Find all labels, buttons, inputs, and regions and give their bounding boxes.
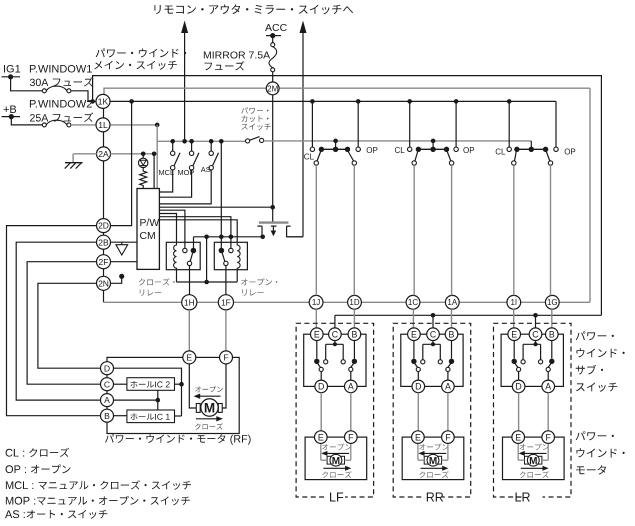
switch LF rocker OP riser <box>357 101 359 147</box>
pin 2B <box>97 235 111 249</box>
motor RR M <box>424 454 441 466</box>
motor RF box <box>107 357 239 433</box>
svg-text:A: A <box>348 382 354 392</box>
legend OP <box>6 464 71 473</box>
wire pin D to hall ICs <box>114 368 182 416</box>
pin 1J <box>309 295 323 309</box>
switch LR rocker rocker bar <box>530 141 532 149</box>
wire LF A to motor F <box>350 393 352 431</box>
arrow to remote mirror switch (left) <box>181 21 188 34</box>
motor LF pin E <box>315 431 328 444</box>
svg-text:2A: 2A <box>98 149 109 159</box>
switch AS <box>209 151 213 155</box>
pin 2F <box>97 255 111 269</box>
wire IG1 to fuse F1 <box>11 77 42 91</box>
fuse F2 P.WINDOW2 25A <box>42 123 46 127</box>
net label: to remote outer mirror switch <box>155 4 354 14</box>
wire LR D to motor E <box>518 393 520 431</box>
wire RR D to motor E <box>417 393 419 431</box>
motor RF close arrow <box>196 418 221 420</box>
svg-text:E: E <box>515 432 521 442</box>
switch MCL <box>171 151 175 155</box>
svg-text:F: F <box>445 432 451 442</box>
sub-switch RR pin C <box>427 328 440 341</box>
svg-text:D: D <box>104 363 110 373</box>
legend AS <box>5 510 107 519</box>
open relay coil <box>237 242 240 269</box>
wire pin B to hall IC1 <box>114 415 127 417</box>
wire 1L to CM and switch bus <box>110 124 157 126</box>
pin 1F <box>218 295 233 310</box>
svg-text:1J: 1J <box>312 298 320 307</box>
svg-text:2B: 2B <box>98 237 109 247</box>
open relay box <box>214 242 247 269</box>
svg-text:MIRROR 7.5A: MIRROR 7.5A <box>203 50 270 62</box>
svg-text:OP: OP <box>564 148 576 157</box>
svg-text:F: F <box>223 352 228 362</box>
switch RR rocker CL riser <box>409 101 411 147</box>
switch RR rocker blades <box>415 152 418 162</box>
wire top loop feed to sub-switch commons <box>93 76 602 316</box>
sub-switch RR pin D <box>412 380 425 393</box>
wire CM to close relay contact <box>160 210 185 248</box>
wire +B to fuse F2 <box>11 117 42 125</box>
svg-text:LR: LR <box>515 491 531 505</box>
caption power window motor RF <box>105 434 251 445</box>
motor RR pin F <box>442 431 455 444</box>
svg-text:B: B <box>449 329 455 339</box>
switch LF rocker rocker bar <box>335 141 337 149</box>
legend CL <box>6 448 69 457</box>
svg-text:C: C <box>532 329 539 339</box>
switch RR rocker rocker bar <box>432 141 434 149</box>
wire RR feeds <box>413 309 451 328</box>
wire LF D to motor E <box>320 393 322 431</box>
legend MCL <box>6 480 191 490</box>
wire pin F to motor <box>222 364 226 408</box>
label close relay <box>139 278 175 285</box>
motor LF pin F <box>345 431 358 444</box>
svg-text:B: B <box>351 329 357 339</box>
svg-text:CL: CL <box>495 148 506 157</box>
wire LR rocker CL dropper <box>513 165 515 295</box>
pin 1G <box>545 295 559 309</box>
svg-text:P.WINDOW2: P.WINDOW2 <box>29 99 92 111</box>
junctions on source line <box>204 235 209 240</box>
power cut switch <box>246 139 250 143</box>
hall IC2 <box>127 378 175 391</box>
sub-switch LF internals <box>314 341 357 381</box>
svg-text:M: M <box>529 456 537 467</box>
switch LR rocker CL riser <box>508 101 510 147</box>
svg-text:2M: 2M <box>267 84 278 93</box>
offpage arrow below 2B <box>121 242 123 245</box>
sub-switch LF pin E <box>311 328 324 341</box>
sub-switch RR internals <box>411 341 454 381</box>
switch RR rocker contacts <box>408 147 412 151</box>
svg-text:P.WINDOW1: P.WINDOW1 <box>29 64 92 76</box>
motor M RF <box>196 404 200 413</box>
wire 2B to motor pin A <box>16 242 100 400</box>
terminal ACC <box>266 35 281 37</box>
svg-text:+B: +B <box>3 104 17 116</box>
sub-switch LF pin A <box>345 380 358 393</box>
wire close relay to 1H <box>189 266 191 295</box>
svg-text:IG1: IG1 <box>3 64 21 76</box>
wire hall IC2 out <box>175 383 182 385</box>
svg-text:D: D <box>415 382 421 392</box>
wire LF rocker OP dropper <box>353 165 355 295</box>
terminal IG1 <box>2 76 21 78</box>
svg-text:1I: 1I <box>510 298 517 307</box>
wire fuse F2 to 1L <box>71 124 96 126</box>
svg-text:C: C <box>430 329 437 339</box>
svg-text:1A: 1A <box>447 298 457 307</box>
wire LF feeds <box>316 309 354 328</box>
svg-text:ACC: ACC <box>265 22 288 34</box>
svg-text:M: M <box>429 456 437 467</box>
svg-text:CM: CM <box>140 231 156 242</box>
svg-text:E: E <box>186 352 192 362</box>
wire 1H to pin E <box>188 310 190 351</box>
sub-switch LF box <box>304 334 366 386</box>
svg-text:CL: CL <box>395 146 406 155</box>
sub-switch LR internals <box>511 341 554 381</box>
wire relay coil commons <box>176 270 178 282</box>
svg-text:2F: 2F <box>99 257 109 267</box>
motor LF wires <box>321 443 351 460</box>
switch MOP stub <box>191 141 193 151</box>
ground <box>72 154 74 163</box>
label power window motor <box>576 431 614 440</box>
svg-text:D: D <box>515 382 521 392</box>
junction node K <box>90 99 95 104</box>
label: power window main switch <box>96 48 187 57</box>
switch AS stub <box>210 141 212 151</box>
sub-switch RR pin E <box>408 328 421 341</box>
svg-text:E: E <box>411 329 417 339</box>
wire 2B to CM <box>110 241 137 243</box>
pin 2A <box>97 147 111 161</box>
wire RR rocker OP dropper <box>451 165 453 295</box>
svg-text:F: F <box>546 432 552 442</box>
label: power cut switch <box>241 107 268 114</box>
wire MOP to CM <box>160 170 192 197</box>
pin 1C <box>406 295 420 309</box>
pin 2D <box>97 219 111 233</box>
sub-switch LR pin A <box>542 380 555 393</box>
motor RF pin D <box>101 362 114 375</box>
svg-text:C: C <box>332 329 339 339</box>
motor RF open arrow <box>195 386 223 392</box>
wire LR rocker OP dropper <box>550 165 552 295</box>
wire RR A to motor F <box>447 393 449 431</box>
svg-text:2N: 2N <box>98 278 109 288</box>
sub-switch LR pin E <box>508 328 521 341</box>
wire connector column <box>103 108 105 147</box>
svg-text:P/W: P/W <box>140 218 160 229</box>
LED indicator <box>142 154 144 158</box>
wire 2A to ground <box>73 153 97 155</box>
motor RF pin E <box>183 351 196 364</box>
wire 2F to CM <box>110 261 137 263</box>
dashed boundary RR <box>393 323 471 497</box>
hall IC1 <box>127 410 175 423</box>
svg-text:E: E <box>318 432 324 442</box>
motor RF pin F <box>220 351 233 364</box>
bus switch feed right section <box>264 140 532 142</box>
sub-switch RR pin B <box>445 328 458 341</box>
wire connector row line <box>104 301 591 303</box>
transistor Q1 body <box>257 225 262 227</box>
svg-text:A: A <box>445 382 451 392</box>
pin 1K <box>96 94 110 108</box>
bus 1K line <box>110 100 556 102</box>
dashed boundary LF <box>296 323 374 497</box>
pin 1A <box>445 295 459 309</box>
sub-switch RR box <box>401 334 463 386</box>
svg-text:RR: RR <box>426 491 444 505</box>
wire ACC bus 2M line <box>104 88 590 94</box>
svg-text:1G: 1G <box>547 298 558 307</box>
motor RR pin E <box>412 431 425 444</box>
wire pin E to motor <box>189 364 196 408</box>
svg-text:OP: OP <box>463 146 475 155</box>
switch LF rocker contacts <box>310 147 314 151</box>
wire relay common riser <box>220 141 222 248</box>
open relay contact <box>219 248 225 254</box>
wire MCL to CM <box>160 170 173 192</box>
svg-text:AS: AS <box>201 165 211 174</box>
sub-switch LR pin B <box>546 328 559 341</box>
wire CM to open relay coil <box>160 220 238 243</box>
terminal +B <box>2 116 21 118</box>
pin 1I <box>507 295 521 309</box>
svg-text:1L: 1L <box>98 120 108 130</box>
wire open relay to 1F <box>225 266 227 295</box>
fuse F1 P.WINDOW1 30A <box>42 89 46 93</box>
wire fuse F1 to node K <box>71 91 96 102</box>
motor LF label open <box>321 444 351 456</box>
wire 2A to CM <box>110 153 157 155</box>
switch MCL stub <box>172 141 174 151</box>
pin 1D <box>348 295 362 309</box>
svg-text:E: E <box>314 329 320 339</box>
sub-switch LR pin C <box>529 328 542 341</box>
motor RF pin A <box>101 394 114 407</box>
motor LF box <box>305 437 367 480</box>
switch LF rocker CL riser <box>311 101 313 147</box>
motor LR label close <box>520 466 549 478</box>
svg-text:1D: 1D <box>349 298 359 307</box>
wire ACC to fuse F3 <box>272 36 274 43</box>
svg-text:M: M <box>332 456 340 467</box>
motor RR wires <box>418 443 448 460</box>
label open relay <box>241 278 277 285</box>
motor LR pin E <box>512 431 525 444</box>
svg-text:MCL: MCL <box>159 168 175 177</box>
wire 2D riser to 1K line <box>110 101 131 225</box>
wire RR rocker CL dropper <box>413 165 415 295</box>
motor RR label close <box>419 466 448 478</box>
bus switch feed left section <box>157 140 247 142</box>
wire 2M to MOSFET gate <box>272 95 274 222</box>
svg-text:E: E <box>511 329 517 339</box>
wire fuse F3 to 2M <box>272 72 274 82</box>
sub-switch LR pin D <box>512 380 525 393</box>
sub-switch LR box <box>501 334 563 386</box>
motor LR M <box>525 454 542 466</box>
motor LR label open <box>519 444 549 456</box>
close relay contact <box>183 248 187 252</box>
motor RR box <box>402 437 464 480</box>
sub-switch LF pin B <box>348 328 361 341</box>
svg-text:1F: 1F <box>221 297 231 307</box>
transistor Q1 gate bar <box>259 221 289 223</box>
motor LF label close <box>322 466 351 478</box>
motor RR label open <box>418 444 448 456</box>
switch MOP <box>189 151 193 155</box>
svg-text:E: E <box>415 432 421 442</box>
wire pin A to hall ICs <box>114 399 158 401</box>
dashed boundary LR <box>494 323 572 497</box>
svg-text:LF: LF <box>329 491 344 505</box>
fuse F3 MIRROR 7.5A <box>271 43 275 47</box>
wire AS to CM <box>160 170 212 204</box>
wire pin C to hall IC2 <box>114 383 127 385</box>
svg-text:CL: CL <box>304 153 315 162</box>
motor RF pin B <box>101 409 114 422</box>
svg-text:M: M <box>204 400 215 415</box>
svg-text:C: C <box>104 379 110 389</box>
wire LF rocker CL dropper <box>315 165 317 295</box>
wire LR A to motor F <box>547 393 549 431</box>
motor LF M <box>327 454 344 466</box>
pin 1H <box>182 295 197 310</box>
sub-switch LF pin D <box>315 380 328 393</box>
svg-text:B: B <box>549 329 555 339</box>
pin 1L <box>96 118 110 132</box>
wire 2N stub with dot <box>110 278 121 284</box>
wire 1F to pin F <box>225 310 227 351</box>
sub-switch LF pin C <box>329 328 342 341</box>
wire MOSFET drain to arrow2 <box>287 236 303 238</box>
svg-text:F: F <box>348 432 354 442</box>
resistor R1 <box>140 168 147 189</box>
svg-text:1K: 1K <box>98 96 109 106</box>
junction dots on switch bus <box>170 139 175 144</box>
close relay box <box>166 242 200 269</box>
close relay coil <box>174 242 177 269</box>
svg-text:A: A <box>104 395 110 405</box>
svg-text:D: D <box>318 382 324 392</box>
motor RF pin C <box>101 378 114 391</box>
svg-text:2D: 2D <box>98 221 109 231</box>
legend MOP <box>6 496 190 505</box>
wire MOSFET source line <box>194 236 263 238</box>
wire 2N to motor pin D <box>38 283 101 368</box>
bus sub-switch commons <box>335 314 602 316</box>
switch LR rocker blades <box>515 152 517 162</box>
svg-text:B: B <box>104 411 110 421</box>
svg-text:1H: 1H <box>184 297 195 307</box>
wire CM to MOSFET gate <box>160 206 273 208</box>
svg-text:1C: 1C <box>408 298 418 307</box>
motor LR box <box>503 437 565 480</box>
sub-switch RR pin A <box>442 380 455 393</box>
label power window sub switch <box>576 331 614 340</box>
switch RR rocker OP riser <box>455 101 457 147</box>
pin 2N <box>97 276 111 290</box>
junction dots on 1K line <box>129 99 134 104</box>
svg-text:OP: OP <box>366 146 378 155</box>
arrow to remote mirror switch (right) <box>300 21 307 34</box>
wire LR feeds <box>514 309 552 328</box>
svg-text:A: A <box>545 382 551 392</box>
switch LF rocker blades <box>317 152 321 162</box>
control module P/W CM <box>137 189 159 270</box>
wire C risers <box>334 315 336 328</box>
pin 2M <box>266 82 279 95</box>
wire 2D to motor pin B <box>7 226 101 416</box>
wire 2F to motor pin C <box>27 262 101 385</box>
motor LR wires <box>518 443 548 460</box>
motor LR pin F <box>542 431 555 444</box>
wire CM to close relay coil <box>160 214 177 243</box>
switch LR rocker contacts <box>507 147 511 151</box>
